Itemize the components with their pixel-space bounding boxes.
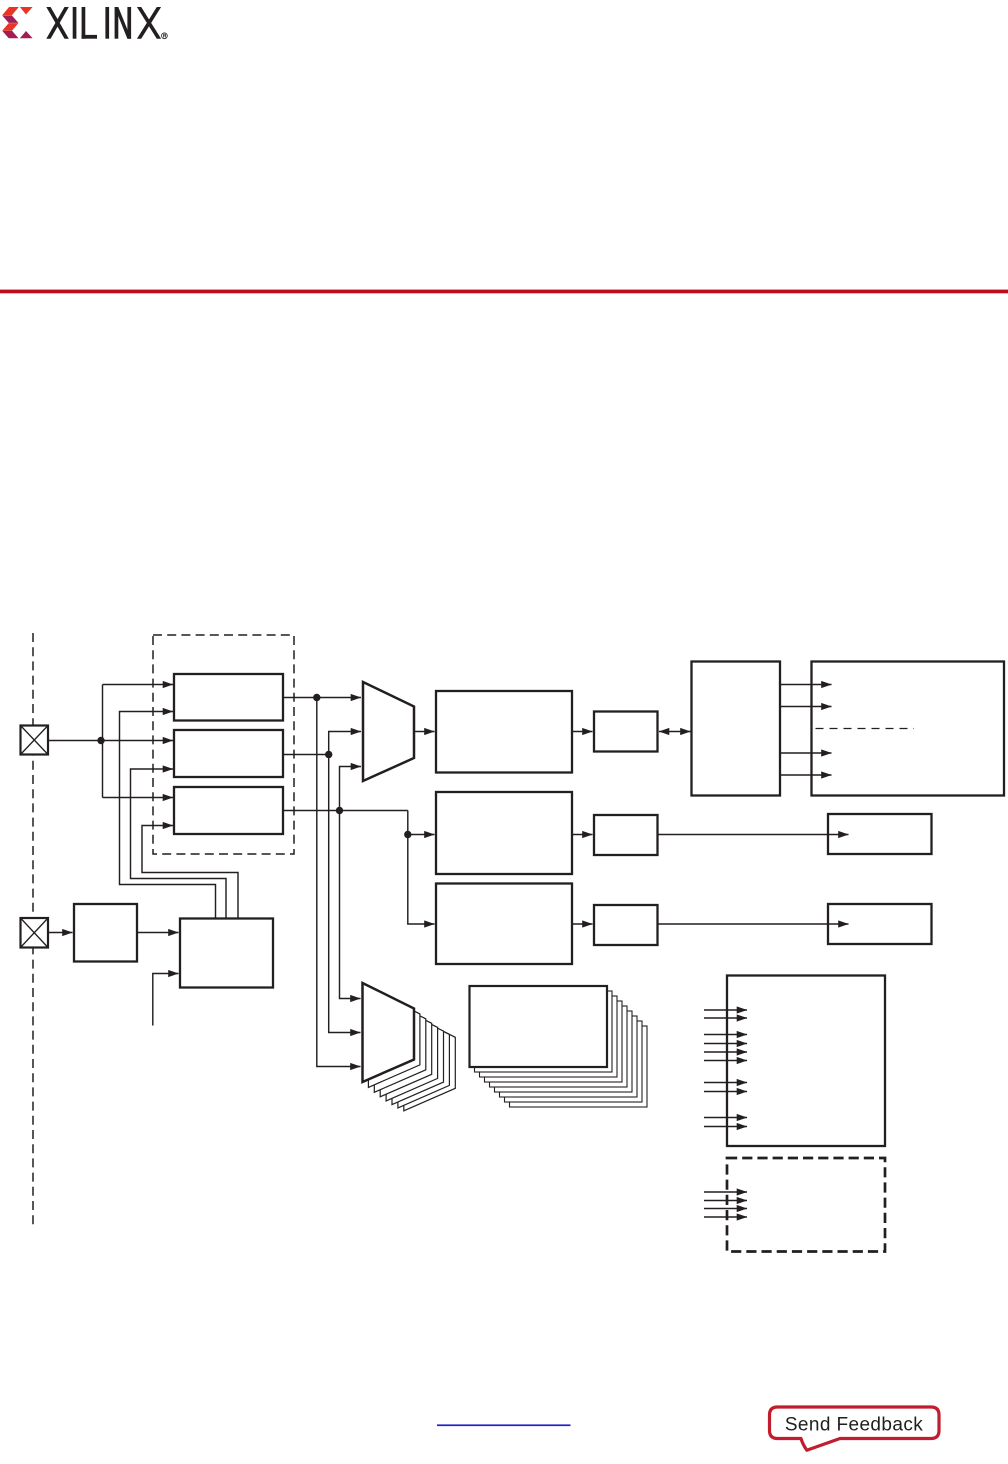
wire: fanout vertical from pad node [102, 685, 104, 798]
dashed divider inside fabric block [816, 728, 915, 730]
interface block (tall) [692, 662, 781, 796]
wire: bidirectional bitslip 1 to interface [659, 731, 691, 733]
wide register box 2 [828, 814, 932, 854]
wire: optional box input arrow 3 [704, 1208, 747, 1210]
wire: node C up to mux M1 input 3 [340, 767, 362, 811]
serializer main box [470, 986, 608, 1067]
ISERDES block 3 [436, 884, 572, 965]
Send Feedback label [785, 1415, 923, 1436]
wire: interface to fabric arrow 4 [780, 774, 832, 776]
IOB logic box [727, 976, 885, 1147]
wire: to register C input 1 [103, 797, 174, 799]
wire: optional box input arrow 1 [704, 1191, 747, 1193]
ISERDES block 1 [436, 691, 572, 773]
bitslip box 1 [594, 712, 658, 752]
wire: mux M1 output to ISERDES 1 [414, 731, 435, 733]
wire: interface to fabric arrow 2 [780, 706, 832, 708]
wire: interface to fabric arrow 1 [780, 684, 832, 686]
register block B [174, 730, 283, 777]
wire: pad P1 to register B input [48, 740, 173, 742]
node pad fanout [97, 737, 104, 744]
wire: clock line to register A input 2 [120, 712, 216, 918]
wire: IOB input arrow 4 [704, 1043, 747, 1045]
node C [336, 807, 343, 814]
wire: clock line to register B input 2 [131, 769, 227, 918]
wire: IOB input arrow 7 [704, 1082, 747, 1084]
wire: register A output to mux M1 [283, 697, 361, 699]
control block [180, 919, 273, 988]
red header rule [0, 290, 1008, 294]
dashed group box (input registers) [153, 635, 294, 854]
node D [404, 831, 411, 838]
wire: bitslip 3 to wide register 3 [658, 923, 849, 925]
register block A [174, 674, 283, 721]
wire: node B down to mux M2 input 2 [329, 755, 361, 1033]
wire: IOB input arrow 10 [704, 1126, 747, 1128]
I/O pad P2 [21, 918, 49, 948]
wire: ISERDES 2 to bitslip 2 [572, 834, 593, 836]
wire: node A vertical down to mux M2 [317, 698, 361, 1067]
wire: IOB input arrow 6 [704, 1060, 747, 1062]
serializer echo stack [475, 991, 648, 1107]
wire: branch to ISERDES 2 input [408, 834, 435, 836]
wire: stub into control block [153, 974, 179, 1026]
wire: IOB input arrow 9 [704, 1117, 747, 1119]
wire: pad P2 to delay block [48, 932, 73, 934]
I/O pad P1 [21, 726, 49, 755]
fabric block (large right) [812, 662, 1005, 796]
wire: ISERDES 3 to bitslip 3 [572, 923, 593, 925]
wire: node C down to mux M2 input 1 [340, 811, 361, 999]
svg-text:Send Feedback: Send Feedback [785, 1415, 923, 1436]
junction dots [97, 694, 411, 838]
wire: interface to fabric arrow 3 [780, 752, 832, 754]
Send Feedback speech bubble [770, 1407, 940, 1450]
wire: ISERDES 1 to bitslip 1 [572, 731, 593, 733]
register block C [174, 787, 283, 834]
wire: register B output [283, 754, 329, 756]
wire: register C output across to corner [283, 810, 408, 812]
node A [313, 694, 320, 701]
wire: IOB input arrow 3 [704, 1034, 747, 1036]
wire: IOB input arrow 5 [704, 1051, 747, 1053]
wire: IOB input arrow 2 [704, 1017, 747, 1019]
wire: delay block to control block [137, 932, 179, 934]
wire: to register A input 1 [103, 684, 174, 686]
wire: IOB input arrow 8 [704, 1091, 747, 1093]
bitslip box 3 [594, 905, 658, 945]
mux M2 [363, 983, 415, 1082]
registered trademark symbol [162, 33, 168, 39]
bitslip box 2 [594, 815, 658, 855]
wire: IOB input arrow 1 [704, 1009, 747, 1011]
wire: node B up to mux M1 input 2 [329, 732, 361, 755]
wide register box 3 [828, 904, 932, 944]
mux M1 [363, 682, 414, 781]
Xilinx wordmark XILINX [46, 7, 161, 39]
wire: optional box input arrow 2 [704, 1200, 747, 1202]
node B [325, 751, 332, 758]
Xilinx logo mark [2, 7, 32, 38]
dashed clock-region boundary (vertical) [32, 633, 34, 1226]
wire: clock line to register C input 2 [142, 826, 238, 918]
dashed optional box [727, 1158, 885, 1252]
wire: optional box input arrow 4 [704, 1216, 747, 1218]
wire: bitslip 2 to wide register 2 [658, 834, 849, 836]
hyperlink underline [437, 1424, 571, 1426]
mux M2 echo stack [368, 988, 455, 1110]
ISERDES block 2 [436, 792, 572, 874]
delay block [74, 904, 137, 962]
wire: corner down with branch to ISERDES 2 [408, 811, 435, 925]
